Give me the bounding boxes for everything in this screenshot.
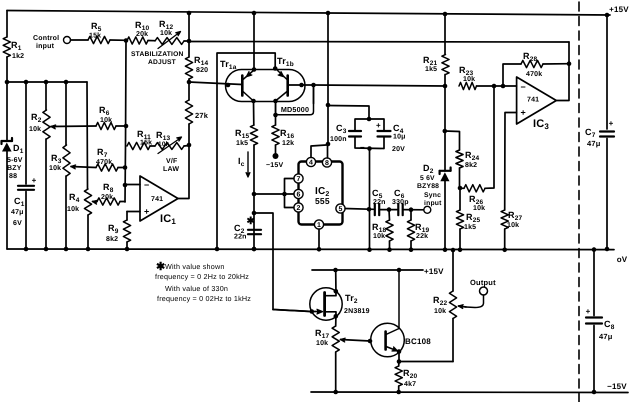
svg-text:With value of 330n: With value of 330n [165,284,228,293]
svg-text:+: + [586,307,591,316]
svg-text:820: 820 [196,67,208,74]
svg-text:4k7: 4k7 [404,380,416,388]
svg-text:1k2: 1k2 [12,52,24,60]
svg-text:10k: 10k [463,75,475,83]
svg-text:88: 88 [9,173,17,180]
svg-text:10k: 10k [49,164,61,172]
svg-text:8k2: 8k2 [106,235,118,243]
svg-text:47μ: 47μ [11,209,24,216]
svg-text:With value shown: With value shown [165,262,225,271]
svg-text:Sync: Sync [424,192,441,199]
svg-text:BC108: BC108 [405,337,431,346]
svg-text:47μ: 47μ [599,332,613,341]
svg-text:+: + [144,207,149,217]
svg-text:6V: 6V [13,220,22,227]
svg-text:✱: ✱ [247,216,256,227]
svg-text:+: + [609,119,614,128]
svg-text:−: − [144,180,149,190]
svg-text:22n: 22n [373,199,386,206]
svg-text:STABILIZATION: STABILIZATION [131,51,184,58]
svg-text:10μ: 10μ [393,134,406,141]
svg-text:1k5: 1k5 [236,139,248,147]
svg-text:10k: 10k [507,221,519,229]
svg-text:10k: 10k [160,29,172,37]
svg-text:4: 4 [309,160,313,167]
svg-text:8: 8 [325,160,329,167]
svg-text:−: − [521,82,526,92]
svg-text:2N3819: 2N3819 [344,308,370,315]
svg-text:555: 555 [315,196,330,206]
svg-text:frequency = 0 02Hz to 1kHz: frequency = 0 02Hz to 1kHz [157,294,251,303]
svg-text:+15V: +15V [424,267,444,276]
svg-text:LAW: LAW [163,166,179,173]
svg-text:input: input [424,200,442,207]
svg-text:22n: 22n [234,234,247,241]
svg-text:10k: 10k [316,339,328,347]
svg-text:330p: 330p [392,199,409,206]
svg-text:+: + [32,176,37,185]
svg-text:BZY88: BZY88 [417,183,439,190]
svg-text:frequency = 0 2Hz to 20kHz: frequency = 0 2Hz to 20kHz [155,272,249,281]
svg-text:input: input [36,42,55,50]
svg-text:741: 741 [151,196,163,203]
svg-text:10k: 10k [373,232,385,240]
svg-text:741: 741 [527,97,539,104]
svg-text:1: 1 [317,222,321,229]
svg-text:5-6V: 5-6V [7,157,23,164]
svg-text:10k: 10k [67,205,79,213]
svg-text:10k: 10k [29,125,41,133]
svg-text:27k: 27k [195,111,209,120]
svg-text:8k2: 8k2 [465,161,477,169]
svg-text:10k: 10k [158,141,170,148]
svg-text:oV: oV [617,255,628,264]
svg-text:10k: 10k [434,307,446,315]
svg-text:10k: 10k [473,204,485,212]
svg-text:7: 7 [296,176,300,183]
svg-text:1k5: 1k5 [464,223,476,231]
svg-text:100n: 100n [330,136,347,143]
svg-text:12k: 12k [282,139,294,147]
svg-text:+15V: +15V [609,5,629,14]
svg-text:1k5: 1k5 [425,65,437,73]
svg-text:6: 6 [296,192,300,199]
svg-text:5: 5 [338,206,342,213]
svg-text:2: 2 [296,205,300,212]
svg-text:Output: Output [470,278,496,287]
svg-text:−15V: −15V [607,382,627,391]
svg-text:22k: 22k [416,232,428,240]
svg-text:V/F: V/F [166,157,178,165]
svg-text:−15V: −15V [266,162,283,169]
svg-text:−: − [360,143,365,152]
svg-text:BZY: BZY [7,165,22,172]
svg-text:470k: 470k [526,70,542,78]
svg-text:5 6V: 5 6V [420,175,435,182]
svg-text:47μ: 47μ [587,139,601,148]
svg-text:+: + [521,108,526,118]
svg-text:MD5000: MD5000 [281,105,309,114]
svg-text:20k: 20k [136,30,148,38]
svg-text:Control: Control [33,34,59,42]
svg-text:ADJUST: ADJUST [148,59,177,66]
svg-text:+: + [376,121,381,130]
svg-text:20V: 20V [392,146,405,153]
svg-text:15k: 15k [89,32,101,40]
